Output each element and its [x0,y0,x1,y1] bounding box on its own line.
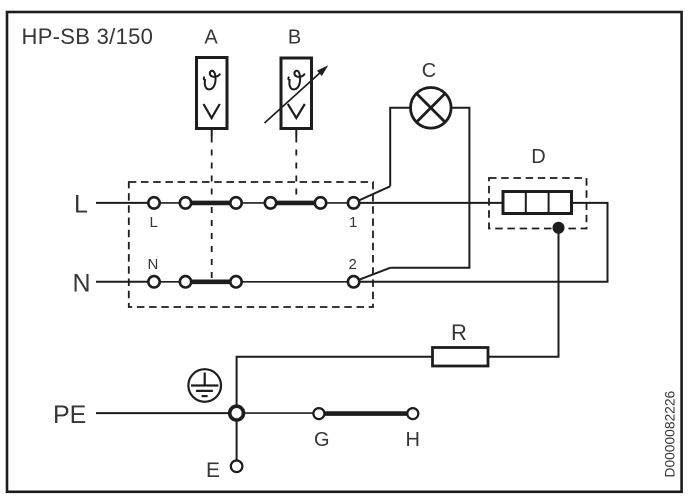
label A [204,27,218,49]
terminal block enclosure (dashed) [129,182,373,307]
label N (supply) [73,270,91,298]
pin label 2 [349,256,357,273]
junction on D enclosure [553,222,565,234]
thermostat B [281,58,312,137]
svg-text:L: L [74,191,88,219]
protective earth symbol [188,369,221,402]
mechanical link from A (dashed) [211,137,213,279]
wire: lamp C right lead [390,108,469,268]
terminal (L row 4) [265,197,276,208]
terminal (N row 2) [180,276,191,287]
label C [422,60,436,82]
svg-text:A: A [204,27,218,49]
svg-text:N: N [73,270,91,298]
wire: lamp C left lead [390,108,410,187]
label H [406,429,420,451]
wire: PE feed [96,412,230,414]
jumper bar G-H [319,411,413,416]
thermostat A [197,58,228,137]
wire: N feed [96,281,148,283]
terminal H [407,408,418,419]
label B [288,27,301,49]
svg-text:H: H [406,429,420,451]
label R [451,320,467,345]
wire: resistor R to PE junction [237,357,433,407]
label PE [53,401,86,429]
label HP-SB 3/150 [22,24,154,49]
heating element D [503,192,572,214]
svg-text:G: G [314,429,330,451]
wire: PE junction to terminal E [236,420,238,461]
heating element enclosure D (dashed) [489,178,587,229]
terminal (L row 3) [230,197,241,208]
svg-text:D: D [531,146,545,168]
jumper bar L row (left) [186,201,237,206]
resistor R [433,348,489,367]
svg-text:2: 2 [349,256,357,273]
pin label 1 [349,214,357,231]
adjustability arrow on B [265,65,329,123]
svg-text:PE: PE [53,401,86,429]
terminal 1 [348,197,359,208]
signal lamp C [411,88,452,129]
wire: L row to heating element D [359,202,503,204]
wire: L feed [96,202,148,204]
svg-text:D0000082226: D0000082226 [663,390,678,477]
wire: L row [154,202,354,204]
label D [531,146,545,168]
svg-text:E: E [206,459,220,482]
switch contact at terminal 2 [359,268,391,280]
terminal 2 [348,276,359,287]
label L (terminal) [150,214,158,231]
jumper bar N row [186,279,237,284]
label N (terminal) [148,256,159,273]
label E [206,459,220,482]
terminal (L row 5) [315,197,326,208]
wire: D enclosure to resistor R [488,228,559,357]
svg-text:N: N [148,256,159,273]
svg-text:L: L [150,214,158,231]
wire: PE junction to terminal G [243,412,313,414]
svg-text:R: R [451,320,467,345]
terminal (N row 3) [230,276,241,287]
wire: N row [154,281,354,283]
svg-text:B: B [288,27,301,49]
wire: terminal 2 to heating element D return [359,203,607,282]
terminal (L row 2) [180,197,191,208]
terminal E [231,461,243,473]
label L (supply) [74,191,88,219]
jumper bar L row (right) [271,201,321,206]
label D0000082226 [663,390,678,477]
terminal N [148,276,159,287]
svg-text:HP-SB 3/150: HP-SB 3/150 [22,24,154,49]
label G [314,429,330,451]
terminal G [313,408,324,419]
PE junction node [230,406,244,420]
terminal L [148,197,159,208]
switch contact at terminal 1 [359,186,390,200]
svg-text:C: C [422,60,436,82]
svg-text:1: 1 [349,214,357,231]
mechanical link from B (dashed) [295,137,297,200]
